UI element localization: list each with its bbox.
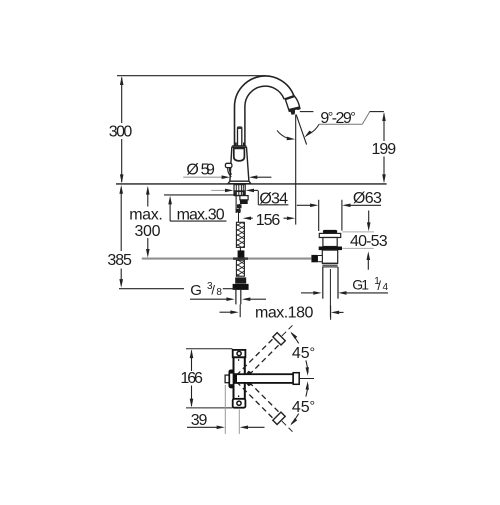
svg-text:156: 156 xyxy=(256,212,281,229)
svg-text:Ø63: Ø63 xyxy=(353,190,382,207)
svg-text:G1: G1 xyxy=(352,276,369,292)
svg-text:40-53: 40-53 xyxy=(350,233,388,250)
svg-text:max.180: max.180 xyxy=(255,304,313,321)
svg-text:G: G xyxy=(190,282,202,299)
svg-text:8: 8 xyxy=(216,287,222,298)
svg-text:39: 39 xyxy=(191,412,208,429)
svg-text:max.30: max.30 xyxy=(177,206,225,223)
svg-text:Ø: Ø xyxy=(186,161,198,178)
svg-text:199: 199 xyxy=(372,141,397,158)
svg-text:Ø34: Ø34 xyxy=(259,190,288,207)
svg-text:/: / xyxy=(377,278,381,293)
svg-text:45°: 45° xyxy=(292,344,315,362)
svg-text:166: 166 xyxy=(180,370,203,387)
svg-text:4: 4 xyxy=(383,282,389,293)
svg-text:9°-29°: 9°-29° xyxy=(320,109,355,127)
svg-text:45°: 45° xyxy=(292,398,315,416)
svg-text:385: 385 xyxy=(107,252,132,269)
svg-text:max.: max. xyxy=(129,207,163,224)
svg-text:300: 300 xyxy=(109,123,133,140)
svg-text:59: 59 xyxy=(201,161,215,178)
svg-text:/: / xyxy=(211,283,215,298)
svg-text:300: 300 xyxy=(135,223,161,240)
